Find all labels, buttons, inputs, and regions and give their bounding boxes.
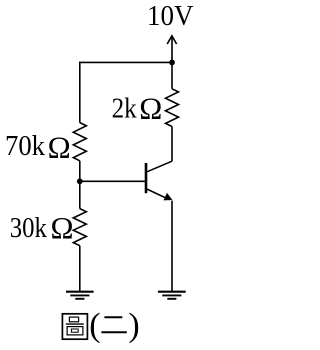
svg-text:Ω: Ω xyxy=(51,210,74,245)
svg-text:30k: 30k xyxy=(10,212,48,244)
wire: base wire xyxy=(80,180,146,182)
svg-text:2k: 2k xyxy=(112,92,137,124)
svg-text:(: ( xyxy=(89,307,100,344)
transistor Q1 collector diagonal xyxy=(146,161,172,172)
wire: top horizontal rail xyxy=(80,61,172,63)
resistor R1 70k xyxy=(73,123,86,161)
ground GND1 (left) xyxy=(66,292,94,299)
power arrow (Vcc) xyxy=(167,36,176,63)
svg-text:10V: 10V xyxy=(147,1,194,32)
transistor Q1 base bar xyxy=(145,163,148,193)
wire: emitter lead down xyxy=(171,201,173,292)
transistor Q1 emitter diagonal with arrow xyxy=(146,189,170,200)
node: base junction dot xyxy=(77,178,83,184)
wire: left rail top (to 70k) xyxy=(79,62,81,123)
svg-text:): ) xyxy=(128,307,139,344)
resistor R2 30k xyxy=(73,209,86,246)
caption: character 圖 xyxy=(62,314,87,339)
svg-text:70k: 70k xyxy=(5,130,45,162)
svg-text:Ω: Ω xyxy=(48,130,71,165)
ground GND2 (right) xyxy=(158,292,186,299)
wire: left rail bottom (30k to ground) xyxy=(79,246,81,292)
svg-text:Ω: Ω xyxy=(139,91,162,126)
wire: left rail middle (70k to 30k) xyxy=(79,161,81,209)
wire: right rail (arrow to 2k) xyxy=(171,62,173,88)
wire: collector lead vertical xyxy=(171,127,173,162)
resistor R3 2k xyxy=(166,89,179,127)
caption: character 二 xyxy=(101,317,126,332)
node: Vcc junction dot xyxy=(169,60,175,66)
